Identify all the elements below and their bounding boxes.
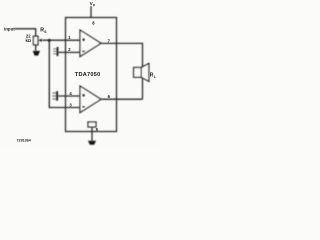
svg-text:TDA7050: TDA7050 xyxy=(75,72,101,78)
svg-text:kΩ: kΩ xyxy=(25,38,31,43)
svg-text:input: input xyxy=(4,26,15,31)
svg-text:L: L xyxy=(154,75,156,79)
svg-text:7Z81364: 7Z81364 xyxy=(17,139,31,143)
